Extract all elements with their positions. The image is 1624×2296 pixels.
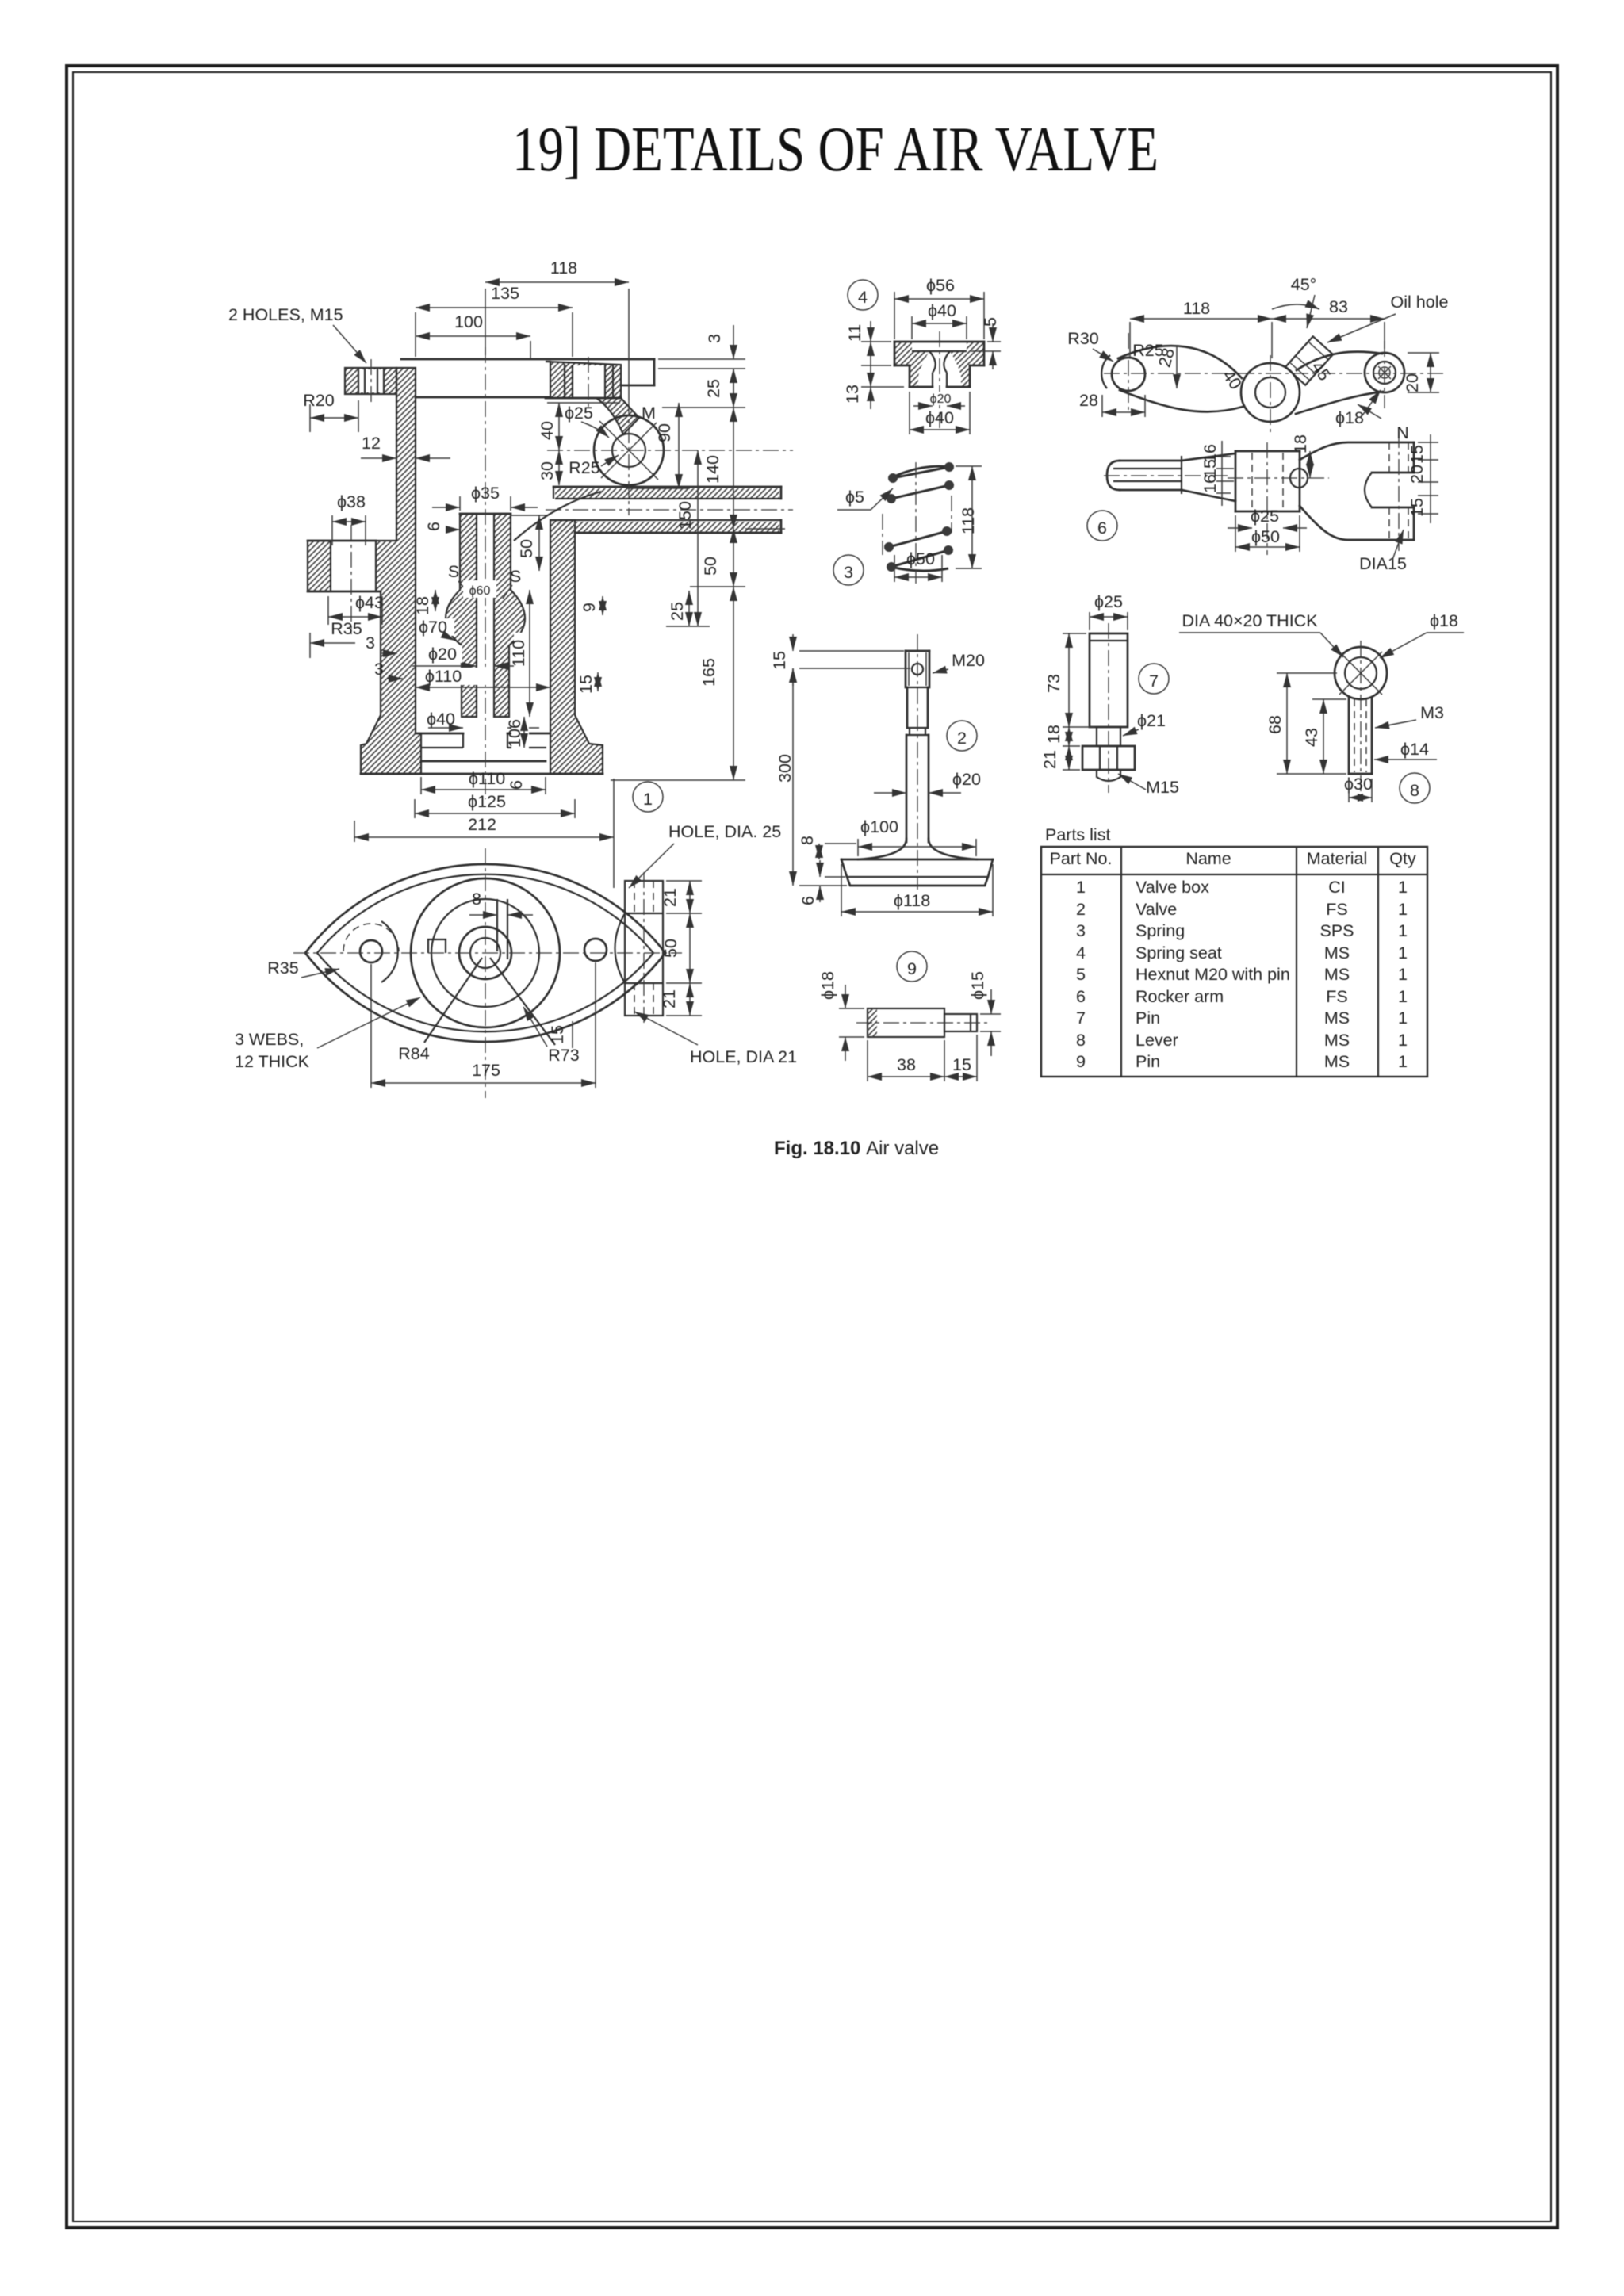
svg-text:50: 50 xyxy=(517,539,536,558)
dim phi110 inner xyxy=(418,668,488,685)
svg-text:19] DETAILS OF AIR VALVE: 19] DETAILS OF AIR VALVE xyxy=(512,115,1159,185)
svg-text:ϕ20: ϕ20 xyxy=(428,645,457,664)
svg-text:Rocker arm: Rocker arm xyxy=(1136,987,1224,1006)
svg-text:6: 6 xyxy=(507,780,526,790)
svg-text:ϕ14: ϕ14 xyxy=(1400,740,1429,759)
svg-text:1: 1 xyxy=(1076,878,1086,897)
svg-text:R35: R35 xyxy=(331,619,362,638)
svg-text:Hexnut M20 with pin: Hexnut M20 with pin xyxy=(1136,965,1290,984)
svg-text:118: 118 xyxy=(959,507,978,534)
balloon 6 xyxy=(1087,511,1117,541)
svg-text:140: 140 xyxy=(703,455,722,484)
svg-text:FS: FS xyxy=(1326,987,1347,1006)
svg-text:1: 1 xyxy=(1398,878,1408,897)
balloon 4 xyxy=(848,280,878,310)
svg-text:ϕ40: ϕ40 xyxy=(427,710,455,729)
svg-text:11: 11 xyxy=(845,324,864,342)
svg-text:Valve: Valve xyxy=(1136,900,1177,919)
svg-text:8: 8 xyxy=(1076,1031,1086,1050)
svg-text:ϕ25: ϕ25 xyxy=(1251,507,1279,526)
svg-text:ϕ40: ϕ40 xyxy=(925,408,954,427)
svg-text:8: 8 xyxy=(798,836,817,845)
side flange dims 21/50/21 xyxy=(666,880,702,882)
svg-text:ϕ100: ϕ100 xyxy=(860,817,898,836)
dim phi20 xyxy=(421,645,462,663)
svg-text:25: 25 xyxy=(668,602,687,621)
svg-text:3: 3 xyxy=(366,633,375,652)
inlet bore centerline xyxy=(350,525,352,634)
svg-text:15: 15 xyxy=(548,1025,567,1044)
svg-text:6: 6 xyxy=(1097,519,1107,538)
svg-text:Pin: Pin xyxy=(1136,1008,1160,1027)
svg-text:300: 300 xyxy=(776,754,795,783)
svg-text:ϕ35: ϕ35 xyxy=(471,484,500,503)
svg-text:38: 38 xyxy=(897,1055,916,1074)
svg-text:25: 25 xyxy=(704,379,723,398)
svg-text:118: 118 xyxy=(550,258,577,277)
hexnut xyxy=(1082,746,1135,770)
valve box right wall hatched section xyxy=(550,520,603,774)
lever stem xyxy=(1348,698,1350,774)
svg-text:ϕ18: ϕ18 xyxy=(1430,611,1458,630)
parts table frame xyxy=(1041,847,1427,1077)
svg-text:R84: R84 xyxy=(398,1044,429,1063)
svg-text:R20: R20 xyxy=(303,391,334,410)
svg-text:ϕ56: ϕ56 xyxy=(926,276,955,295)
svg-text:3 WEBS,: 3 WEBS, xyxy=(235,1030,304,1049)
svg-text:68: 68 xyxy=(1266,715,1285,734)
svg-text:6: 6 xyxy=(1076,987,1086,1006)
centerlines xyxy=(293,952,682,954)
svg-text:3: 3 xyxy=(705,334,724,343)
svg-text:1: 1 xyxy=(1398,1008,1408,1027)
dim 106 vertical xyxy=(511,714,529,753)
oval flange outline xyxy=(305,864,665,1042)
svg-text:100: 100 xyxy=(454,312,483,331)
svg-text:Spring: Spring xyxy=(1136,921,1185,940)
svg-text:5: 5 xyxy=(1076,965,1086,984)
rocker front boss xyxy=(1235,450,1300,453)
svg-text:175: 175 xyxy=(472,1061,500,1080)
svg-text:Spring seat: Spring seat xyxy=(1136,943,1222,962)
svg-text:3: 3 xyxy=(1076,921,1086,940)
svg-text:Qty: Qty xyxy=(1389,849,1416,868)
left flange with bolt hole xyxy=(345,368,396,394)
rocker arm body curves xyxy=(1118,346,1242,378)
balloon 7 xyxy=(1139,664,1169,694)
bottom plate xyxy=(421,760,546,763)
spring coils xyxy=(896,466,950,476)
svg-text:15: 15 xyxy=(576,675,596,694)
svg-text:15: 15 xyxy=(952,1055,971,1074)
svg-text:21: 21 xyxy=(661,888,680,907)
svg-text:15: 15 xyxy=(770,651,789,670)
svg-text:Parts list: Parts list xyxy=(1045,825,1110,844)
table rows xyxy=(1076,878,1408,1071)
svg-text:MS: MS xyxy=(1324,943,1350,962)
svg-text:ϕ5: ϕ5 xyxy=(845,488,864,507)
svg-text:HOLE, DIA 21: HOLE, DIA 21 xyxy=(690,1047,797,1066)
rocker fork xyxy=(1300,442,1414,460)
svg-text:ϕ110: ϕ110 xyxy=(469,769,505,788)
svg-text:ϕ18: ϕ18 xyxy=(818,971,837,1000)
svg-text:118: 118 xyxy=(1183,299,1210,318)
balloon 8 xyxy=(1400,773,1430,803)
svg-text:110: 110 xyxy=(509,640,528,667)
dim 100 xyxy=(530,341,531,358)
svg-text:106: 106 xyxy=(505,719,524,748)
rocker front left bar xyxy=(1107,461,1120,490)
svg-text:ϕ60: ϕ60 xyxy=(469,584,491,598)
pin body part7 xyxy=(1090,633,1128,727)
oil hole boss xyxy=(1285,336,1333,385)
web lines xyxy=(424,958,482,1043)
rocker arm left end xyxy=(1112,358,1145,391)
svg-text:73: 73 xyxy=(1044,674,1063,693)
svg-text:ϕ20: ϕ20 xyxy=(952,770,981,789)
svg-text:ϕ70: ϕ70 xyxy=(419,618,447,637)
balloon 2 xyxy=(947,721,977,751)
svg-text:20: 20 xyxy=(1408,465,1427,484)
svg-text:M15: M15 xyxy=(1146,778,1179,797)
svg-text:2 HOLES, M15: 2 HOLES, M15 xyxy=(228,305,343,324)
dim phi118 xyxy=(876,890,949,910)
svg-text:8: 8 xyxy=(472,890,481,909)
svg-text:45°: 45° xyxy=(1291,275,1317,294)
casting curve xyxy=(514,492,601,541)
svg-text:2: 2 xyxy=(1076,900,1086,919)
valve stem xyxy=(906,687,909,728)
svg-text:MS: MS xyxy=(1324,965,1350,984)
svg-text:50: 50 xyxy=(701,557,720,576)
balloon 1 xyxy=(633,782,663,812)
svg-text:MS: MS xyxy=(1324,1031,1350,1050)
svg-text:135: 135 xyxy=(491,284,519,303)
svg-text:9: 9 xyxy=(580,603,599,612)
svg-text:7: 7 xyxy=(1076,1008,1086,1027)
svg-text:18: 18 xyxy=(1291,434,1310,453)
svg-text:ϕ20: ϕ20 xyxy=(930,392,952,406)
svg-text:FS: FS xyxy=(1326,900,1347,919)
right flange bolt hole xyxy=(573,365,605,397)
svg-text:43: 43 xyxy=(1302,728,1321,747)
svg-text:21: 21 xyxy=(1040,750,1059,769)
svg-text:18: 18 xyxy=(413,596,432,615)
svg-text:13: 13 xyxy=(843,385,862,404)
svg-text:ϕ18: ϕ18 xyxy=(1335,408,1364,427)
valve guide hatched walls xyxy=(446,514,477,717)
svg-text:8: 8 xyxy=(1410,781,1419,800)
svg-text:Oil hole: Oil hole xyxy=(1391,293,1449,312)
svg-text:S: S xyxy=(510,567,521,586)
svg-text:9: 9 xyxy=(907,959,917,978)
svg-text:1: 1 xyxy=(643,790,653,809)
svg-text:165: 165 xyxy=(699,658,718,687)
svg-text:ϕ38: ϕ38 xyxy=(337,492,366,511)
svg-text:4: 4 xyxy=(858,288,868,307)
svg-text:40: 40 xyxy=(538,421,557,440)
svg-text:ϕ50: ϕ50 xyxy=(1251,527,1280,546)
left bolt boss xyxy=(360,940,382,962)
svg-text:M: M xyxy=(642,404,656,423)
svg-text:1: 1 xyxy=(1398,900,1408,919)
valve box right body hatched section xyxy=(546,362,621,398)
svg-text:R35: R35 xyxy=(267,959,298,978)
dim 135 xyxy=(572,312,573,357)
svg-text:HOLE, DIA. 25: HOLE, DIA. 25 xyxy=(668,822,781,841)
balloon 3 xyxy=(833,555,864,585)
svg-text:1: 1 xyxy=(1398,1031,1408,1050)
svg-text:9: 9 xyxy=(1076,1052,1086,1071)
svg-text:15: 15 xyxy=(1408,445,1427,464)
svg-text:DIA 40×20 THICK: DIA 40×20 THICK xyxy=(1182,611,1318,630)
svg-text:4: 4 xyxy=(1076,943,1086,962)
right bolt boss xyxy=(584,939,607,961)
pin body xyxy=(868,1008,944,1037)
centerlines rocker xyxy=(1104,373,1443,374)
svg-text:150: 150 xyxy=(676,501,695,530)
svg-text:12 THICK: 12 THICK xyxy=(235,1052,310,1071)
svg-text:R25: R25 xyxy=(569,458,599,477)
svg-text:16: 16 xyxy=(1201,474,1220,493)
left inlet boss flange xyxy=(308,541,331,591)
svg-text:28: 28 xyxy=(1079,391,1098,410)
svg-text:7: 7 xyxy=(1149,672,1159,691)
svg-text:1: 1 xyxy=(1398,943,1408,962)
svg-text:20: 20 xyxy=(1403,373,1422,392)
rocker arm right end xyxy=(1365,353,1404,392)
main vertical centerline xyxy=(485,347,486,799)
svg-text:CI: CI xyxy=(1328,878,1346,897)
right port walls xyxy=(553,486,781,488)
svg-text:30: 30 xyxy=(538,461,557,480)
keyway slot xyxy=(496,899,498,951)
valve box left wall hatched section xyxy=(361,368,421,774)
svg-text:N: N xyxy=(1396,423,1409,442)
svg-text:S: S xyxy=(448,562,459,581)
side hole xyxy=(1290,469,1308,488)
svg-text:ϕ118: ϕ118 xyxy=(894,891,930,910)
svg-text:MS: MS xyxy=(1324,1008,1350,1027)
rocker arm central boss xyxy=(1241,363,1300,422)
svg-text:Pin: Pin xyxy=(1136,1052,1160,1071)
neck to boss xyxy=(596,398,639,434)
svg-text:6: 6 xyxy=(424,522,443,531)
dim 110 vertical xyxy=(514,633,533,674)
svg-text:2: 2 xyxy=(957,729,967,748)
valve head xyxy=(858,839,906,859)
svg-text:1: 1 xyxy=(1398,921,1408,940)
lever head circle xyxy=(1335,647,1387,699)
spring seat flange xyxy=(894,342,929,387)
balloon 9 xyxy=(897,951,927,982)
dim phi20 seat xyxy=(923,392,958,404)
svg-text:R30: R30 xyxy=(1067,329,1098,348)
svg-text:1: 1 xyxy=(1398,1052,1408,1071)
svg-text:1: 1 xyxy=(1398,987,1408,1006)
dim phi70 xyxy=(418,618,454,636)
svg-text:5: 5 xyxy=(981,317,1000,327)
svg-text:21: 21 xyxy=(660,989,679,1008)
svg-text:Valve box: Valve box xyxy=(1136,878,1209,897)
svg-text:3: 3 xyxy=(844,563,853,582)
svg-text:SPS: SPS xyxy=(1319,921,1354,940)
svg-text:ϕ21: ϕ21 xyxy=(1137,711,1166,730)
svg-text:DIA15: DIA15 xyxy=(1359,554,1407,573)
svg-text:MS: MS xyxy=(1324,1052,1350,1071)
svg-text:R73: R73 xyxy=(548,1046,579,1065)
valve stem threaded end xyxy=(906,650,929,652)
central circles xyxy=(411,878,560,1027)
svg-text:Lever: Lever xyxy=(1136,1031,1178,1050)
svg-text:90: 90 xyxy=(655,423,674,442)
phi60 label xyxy=(463,580,496,598)
M boss circle xyxy=(594,415,664,485)
svg-text:M20: M20 xyxy=(952,651,985,670)
svg-text:ϕ125: ϕ125 xyxy=(468,792,506,811)
svg-text:1: 1 xyxy=(1398,965,1408,984)
svg-text:Part No.: Part No. xyxy=(1050,849,1113,868)
svg-text:ϕ25: ϕ25 xyxy=(565,404,593,423)
svg-text:ϕ25: ϕ25 xyxy=(1094,592,1123,611)
svg-text:212: 212 xyxy=(468,815,496,834)
svg-text:3: 3 xyxy=(374,660,384,679)
side section of oval flange xyxy=(625,881,663,1016)
svg-text:ϕ43: ϕ43 xyxy=(355,593,384,612)
svg-text:6: 6 xyxy=(799,896,818,905)
svg-text:ϕ110: ϕ110 xyxy=(425,667,462,686)
dim 118 xyxy=(485,289,486,355)
svg-text:Name: Name xyxy=(1185,849,1231,868)
valve box top plate xyxy=(401,358,654,361)
svg-text:18: 18 xyxy=(1044,725,1063,744)
svg-text:ϕ50: ϕ50 xyxy=(906,549,935,568)
svg-text:Material: Material xyxy=(1307,849,1367,868)
svg-text:50: 50 xyxy=(661,939,680,958)
svg-text:M3: M3 xyxy=(1420,703,1444,722)
dim phi40 xyxy=(421,710,461,728)
floor of chamber xyxy=(416,733,463,735)
svg-text:ϕ15: ϕ15 xyxy=(968,971,987,1000)
svg-text:Fig. 18.10 Air valve: Fig. 18.10 Air valve xyxy=(774,1138,939,1159)
svg-text:12: 12 xyxy=(362,434,381,453)
svg-text:ϕ40: ϕ40 xyxy=(928,301,956,320)
svg-text:83: 83 xyxy=(1329,297,1348,316)
oval flange inner line xyxy=(317,874,653,1032)
web notch xyxy=(428,939,446,953)
